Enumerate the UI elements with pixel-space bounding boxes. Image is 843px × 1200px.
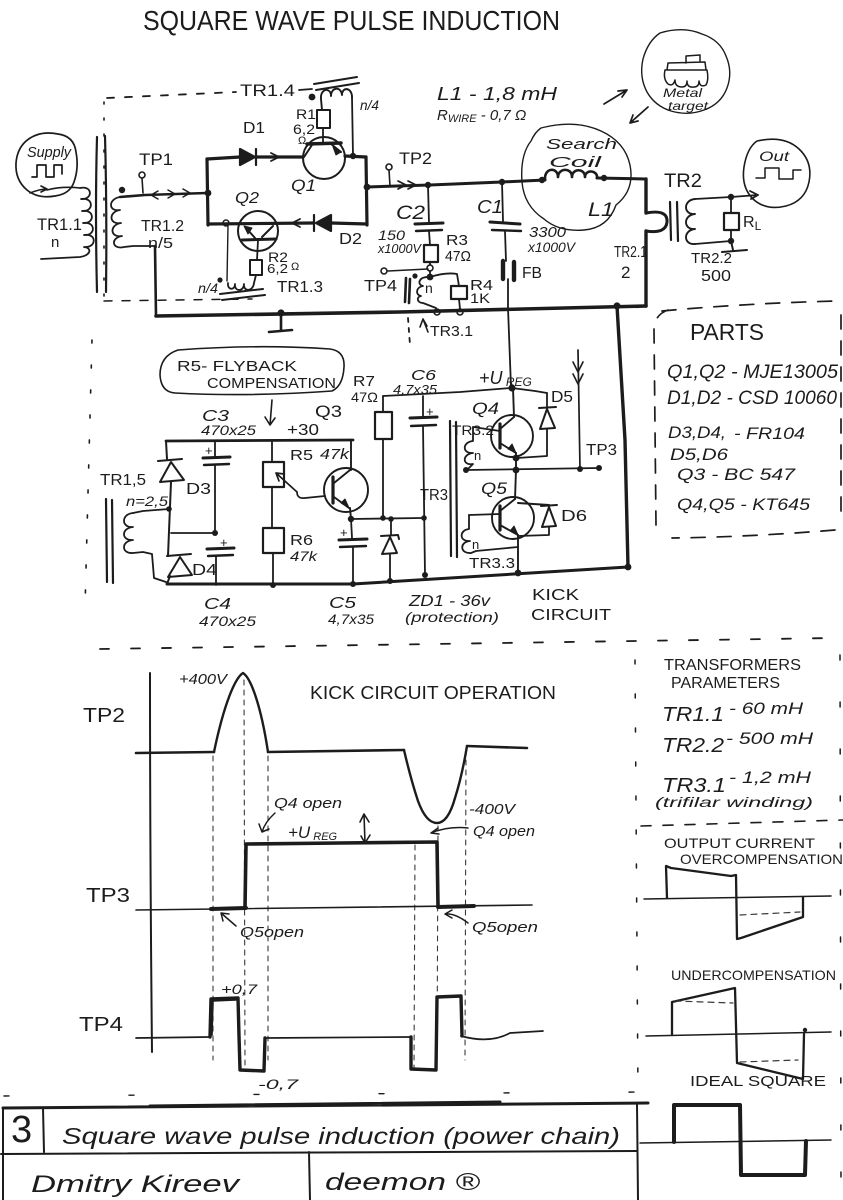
svg-text:Q3: Q3 bbox=[315, 402, 342, 421]
wire UREG to D5 bbox=[512, 388, 547, 393]
svg-text:L1: L1 bbox=[588, 200, 614, 221]
transformer TR2 core bbox=[670, 202, 678, 241]
bridge bottom wire bbox=[208, 223, 367, 224]
R5 flyback compensation bubble bbox=[160, 347, 344, 395]
metal object sketch bbox=[664, 55, 707, 87]
svg-text:R1: R1 bbox=[296, 106, 316, 122]
svg-text:47k: 47k bbox=[320, 446, 351, 463]
svg-text:Metal: Metal bbox=[663, 86, 702, 100]
overcompensation waveform bbox=[666, 866, 803, 939]
wire TR2.2 top to out bbox=[695, 191, 758, 199]
svg-text:D3: D3 bbox=[186, 481, 211, 498]
svg-text:TR1.1: TR1.1 bbox=[662, 704, 724, 726]
wire arrow before D2 bbox=[292, 219, 300, 227]
capacitor C3 bbox=[214, 441, 216, 457]
svg-text:- 500 mH: - 500 mH bbox=[726, 729, 814, 748]
svg-text:deemon ®: deemon ® bbox=[325, 1169, 480, 1196]
svg-text:TP3: TP3 bbox=[86, 885, 130, 907]
test point TP2 bbox=[386, 164, 392, 170]
node +UREG bbox=[508, 384, 515, 391]
node dots L1 bbox=[539, 177, 545, 183]
test point TP1 bbox=[139, 172, 145, 178]
svg-text:OVERCOMPENSATION: OVERCOMPENSATION bbox=[680, 851, 843, 867]
svg-text:n/5: n/5 bbox=[148, 235, 173, 252]
dashed border bottom of schematic bbox=[100, 638, 835, 649]
transformer TR1.5 core bbox=[106, 499, 113, 583]
svg-text:TP1: TP1 bbox=[139, 150, 173, 169]
node dot bridge left bbox=[205, 190, 212, 197]
TP4 baseline bbox=[136, 1031, 543, 1039]
transistor Q2 bbox=[238, 211, 278, 251]
dash marks below bus bbox=[408, 318, 410, 345]
svg-text:Q4 open: Q4 open bbox=[274, 795, 342, 812]
dashed separator bbox=[641, 820, 843, 826]
svg-text:1K: 1K bbox=[470, 290, 491, 306]
svg-text:500: 500 bbox=[701, 268, 731, 285]
TR1.3 core hatch bbox=[220, 289, 265, 300]
svg-text:n/4: n/4 bbox=[198, 280, 218, 296]
svg-text:target: target bbox=[668, 99, 709, 113]
svg-text:D5,D6: D5,D6 bbox=[670, 445, 729, 464]
inductor L1 search coil winding bbox=[545, 170, 597, 180]
node dot bridge right top bbox=[350, 153, 356, 159]
wire cap midpoint to left branch bbox=[171, 532, 215, 534]
main ground bus bbox=[156, 306, 646, 316]
capacitor C6 bbox=[422, 396, 424, 417]
svg-text:Ω: Ω bbox=[298, 135, 306, 147]
overcompensation dashed level bbox=[740, 912, 800, 915]
svg-text:KICK CIRCUIT OPERATION: KICK CIRCUIT OPERATION bbox=[310, 683, 556, 703]
out bubble bbox=[743, 139, 809, 207]
wire arrow after D1 bbox=[271, 153, 279, 161]
svg-text:4,7x35: 4,7x35 bbox=[328, 611, 374, 627]
double arrow bbox=[360, 814, 370, 843]
svg-text:FB: FB bbox=[522, 265, 542, 282]
svg-text:UNDERCOMPENSATION: UNDERCOMPENSATION bbox=[671, 967, 836, 983]
transformer TR1.2 winding bbox=[111, 197, 155, 247]
transformer TR1 core lines bbox=[96, 137, 97, 292]
open node circle on bottom wire bbox=[223, 220, 229, 226]
svg-text:TP4: TP4 bbox=[364, 278, 397, 295]
svg-text:R7: R7 bbox=[353, 373, 375, 390]
dashed border left of schematic upper bbox=[103, 102, 105, 298]
svg-text:TR2.1: TR2.1 bbox=[614, 244, 647, 261]
svg-text:D4: D4 bbox=[192, 562, 217, 579]
capacitor C1 bbox=[502, 182, 503, 221]
resistor R1 bbox=[317, 110, 330, 128]
wire FB to bus and below bbox=[508, 279, 511, 387]
title block top border bbox=[3, 1102, 648, 1108]
svg-text:TR1.4: TR1.4 bbox=[240, 81, 295, 100]
svg-text:R5- FLYBACK: R5- FLYBACK bbox=[177, 358, 297, 375]
svg-text:+: + bbox=[220, 535, 228, 550]
open node circles on bus bbox=[434, 309, 440, 315]
svg-text:- 1,2 mH: - 1,2 mH bbox=[729, 768, 812, 787]
svg-text:Q4 open: Q4 open bbox=[473, 823, 535, 840]
bridge left vertical wire bbox=[207, 159, 208, 225]
node circle under R3 bbox=[429, 262, 431, 265]
svg-text:+U REG: +U REG bbox=[479, 368, 532, 389]
zener diode ZD1 bbox=[390, 519, 392, 535]
svg-text:PARAMETERS: PARAMETERS bbox=[671, 675, 780, 692]
TP3 thick low segments bbox=[211, 906, 474, 909]
svg-text:+: + bbox=[205, 443, 213, 458]
svg-text:470x25: 470x25 bbox=[199, 613, 256, 629]
bridge right vertical wire bbox=[366, 157, 367, 225]
svg-text:TR2.2: TR2.2 bbox=[662, 735, 724, 757]
svg-text:ZD1 - 36v: ZD1 - 36v bbox=[408, 593, 491, 610]
undercompensation waveform bbox=[672, 988, 804, 1079]
out square wave glyph bbox=[756, 168, 801, 179]
svg-text:Ω: Ω bbox=[291, 261, 299, 273]
wiper wire to Q3 base bbox=[297, 492, 325, 498]
node dot TR1.4 bbox=[309, 94, 316, 101]
wire TR1.5 top to node bbox=[133, 509, 169, 513]
svg-text:TR3.1: TR3.1 bbox=[430, 323, 473, 340]
svg-text:TR2: TR2 bbox=[664, 171, 702, 192]
diode D3 bbox=[158, 459, 184, 482]
node dot TP2 branch bbox=[364, 184, 371, 191]
potentiometer R5 bbox=[271, 441, 273, 462]
TR3.3 base lead bbox=[469, 514, 500, 515]
undercompensation dashed levels bbox=[675, 1001, 733, 1003]
svg-text:TR1.3: TR1.3 bbox=[277, 279, 323, 296]
svg-text:+30: +30 bbox=[287, 422, 319, 439]
winding TR3.2 bbox=[465, 427, 473, 470]
bridge top wire bbox=[207, 156, 366, 159]
left branch vertical bbox=[166, 441, 171, 584]
TR1.4 core hatch bbox=[314, 77, 359, 90]
resistor R6 bbox=[271, 487, 273, 528]
svg-text:Dmitry Kireev: Dmitry Kireev bbox=[31, 1171, 242, 1198]
transistor Q4 bbox=[491, 415, 533, 457]
svg-text:RWIRE - 0,7 Ω: RWIRE - 0,7 Ω bbox=[437, 107, 526, 125]
ground symbol bbox=[277, 309, 284, 316]
resistor R7 bbox=[382, 396, 384, 412]
ground stub under RL bbox=[722, 241, 747, 252]
svg-text:- 60 mH: - 60 mH bbox=[729, 699, 804, 718]
lower top rail +30 bbox=[166, 440, 353, 441]
svg-text:n: n bbox=[51, 234, 59, 251]
svg-text:OUTPUT CURRENT: OUTPUT CURRENT bbox=[664, 835, 816, 851]
wire TR1.2 to bridge bbox=[120, 193, 207, 197]
svg-text:Square wave pulse induction (p: Square wave pulse induction (power chain… bbox=[62, 1123, 620, 1149]
svg-text:CIRCUIT: CIRCUIT bbox=[531, 607, 611, 624]
svg-text:47Ω: 47Ω bbox=[445, 248, 471, 265]
TP4 pulse group 2 bbox=[411, 996, 462, 1070]
TP2 positive pulse bbox=[214, 673, 268, 752]
Q5 emitter wire bbox=[517, 535, 519, 573]
transformer TR3 core bbox=[450, 421, 457, 557]
svg-text:470x25: 470x25 bbox=[201, 422, 256, 438]
diode D2 bbox=[314, 215, 331, 231]
wire TR2.2 bottom bbox=[695, 241, 731, 244]
resistor R3 bbox=[424, 245, 438, 262]
svg-text:Search: Search bbox=[546, 136, 617, 153]
Q4 emitter node bbox=[513, 455, 520, 462]
svg-text:Q5: Q5 bbox=[481, 479, 508, 498]
svg-text:47k: 47k bbox=[290, 548, 318, 564]
svg-text:47Ω: 47Ω bbox=[351, 389, 378, 405]
transformer TR3.1 core bbox=[405, 278, 410, 303]
undercompensation axis bbox=[646, 1032, 831, 1036]
svg-text:RL: RL bbox=[743, 214, 762, 233]
transistor Q1 bbox=[303, 137, 345, 179]
transistor Q3 bbox=[324, 468, 368, 512]
wire supply to TR1.1 bbox=[47, 187, 80, 190]
resistor RL bbox=[730, 197, 732, 241]
metal target cloud bbox=[642, 30, 730, 114]
diode D6 bbox=[518, 503, 557, 527]
TP3 pulse bbox=[245, 842, 438, 908]
kick right vertical wire bbox=[617, 306, 628, 567]
svg-text:KICK: KICK bbox=[532, 587, 579, 604]
dashed border left lower bbox=[85, 340, 92, 608]
svg-text:n: n bbox=[474, 448, 481, 463]
svg-text:TR3.3: TR3.3 bbox=[469, 555, 515, 572]
svg-text:R3: R3 bbox=[446, 232, 468, 249]
PARTS dashed box bbox=[654, 301, 841, 538]
svg-text:COMPENSATION: COMPENSATION bbox=[207, 375, 336, 392]
resistor R2 bbox=[257, 240, 258, 260]
svg-text:D5: D5 bbox=[551, 389, 573, 406]
wire TR1.2 bottom to bus bbox=[155, 246, 156, 316]
svg-text:-0,7: -0,7 bbox=[258, 1076, 300, 1092]
diode D5 bbox=[546, 393, 548, 408]
svg-text:TP4: TP4 bbox=[79, 1014, 123, 1036]
winding TR1.3 bbox=[228, 275, 256, 290]
resistor R4 bbox=[430, 273, 459, 286]
winding TR2.1 loop bbox=[646, 212, 667, 232]
svg-text:D6: D6 bbox=[561, 508, 587, 525]
capacitor C5 bbox=[351, 519, 352, 538]
svg-text:L1 - 1,8 mH: L1 - 1,8 mH bbox=[437, 84, 558, 104]
label TR3.1 with arrow bbox=[420, 319, 428, 332]
svg-text:-400V: -400V bbox=[469, 801, 517, 818]
diode D4 bbox=[167, 554, 192, 577]
svg-text:D3,D4,: D3,D4, bbox=[668, 423, 726, 442]
winding TR3.1 bbox=[417, 277, 436, 308]
Q3 collector wire bbox=[350, 441, 352, 470]
svg-text:n: n bbox=[425, 280, 433, 296]
svg-text:TR1,5: TR1,5 bbox=[100, 472, 146, 489]
svg-text:TR1.1: TR1.1 bbox=[37, 215, 82, 234]
svg-text:(trifilar winding): (trifilar winding) bbox=[655, 794, 813, 810]
svg-text:Q5open: Q5open bbox=[240, 924, 304, 941]
node dot left of TP1 wire bbox=[119, 187, 125, 193]
top wire bridge to L1 bbox=[367, 178, 646, 187]
capacitor C2 bbox=[428, 185, 429, 223]
winding TR2.2 bbox=[686, 199, 695, 244]
TP4 pulse group 1 bbox=[210, 998, 265, 1071]
svg-text:+400V: +400V bbox=[179, 671, 229, 688]
svg-text:TP2: TP2 bbox=[83, 705, 125, 727]
svg-text:n=2,5: n=2,5 bbox=[126, 493, 168, 509]
UREG feed wire bbox=[383, 388, 511, 396]
svg-text:TP2: TP2 bbox=[399, 149, 432, 168]
svg-text:n: n bbox=[472, 537, 479, 552]
overcompensation axis bbox=[644, 896, 831, 899]
dashed vertical separator right column bbox=[635, 660, 638, 1095]
UREG row wire bbox=[351, 518, 423, 519]
svg-text:+: + bbox=[426, 404, 434, 419]
svg-text:TR2.2: TR2.2 bbox=[691, 250, 732, 267]
transistor Q5 bbox=[492, 497, 534, 539]
svg-text:Q2: Q2 bbox=[235, 190, 259, 207]
capacitor C4 bbox=[207, 548, 234, 549]
svg-text:R5: R5 bbox=[290, 447, 313, 464]
svg-text:TP3: TP3 bbox=[586, 442, 617, 459]
svg-text:Coil: Coil bbox=[549, 154, 602, 171]
TP2 negative pulse bbox=[404, 746, 467, 823]
TP3 baseline bbox=[136, 905, 532, 910]
search coil bubble bbox=[522, 124, 631, 230]
svg-text:+0,7: +0,7 bbox=[221, 981, 259, 997]
svg-text:C1: C1 bbox=[477, 197, 503, 217]
svg-text:C4: C4 bbox=[204, 596, 231, 613]
ideal square axis bbox=[640, 1140, 831, 1143]
TP3 vertical with arrows bbox=[578, 350, 580, 469]
arrow to metal target bbox=[604, 90, 627, 104]
main right vertical wire bbox=[644, 179, 647, 306]
wire to TP4 bbox=[388, 269, 428, 271]
svg-text:D1,D2 - CSD 10060: D1,D2 - CSD 10060 bbox=[667, 388, 837, 409]
TR1.3 left lead wire bbox=[227, 226, 228, 281]
TR1.4 right lead bbox=[352, 97, 353, 156]
lower bottom bus bbox=[167, 567, 628, 584]
svg-text:6,2: 6,2 bbox=[267, 261, 288, 276]
TP2 waveform baseline bbox=[136, 746, 527, 753]
svg-text:Out: Out bbox=[759, 148, 790, 164]
svg-text:x1000V: x1000V bbox=[527, 239, 577, 255]
ideal square waveform bbox=[674, 1105, 806, 1175]
svg-text:Supply: Supply bbox=[27, 144, 72, 161]
svg-text:C2: C2 bbox=[396, 203, 426, 224]
arrow below bubble bbox=[265, 400, 275, 425]
svg-text:Q3 - BC 547: Q3 - BC 547 bbox=[677, 465, 796, 484]
wire arrows TP2 bbox=[398, 181, 416, 189]
node blob under TP4 node bbox=[427, 274, 434, 281]
svg-text:SQUARE WAVE PULSE INDUCTION: SQUARE WAVE PULSE INDUCTION bbox=[143, 5, 560, 36]
arrow from supply bbox=[30, 186, 47, 193]
svg-text:TRANSFORMERS: TRANSFORMERS bbox=[664, 657, 801, 674]
svg-text:Q1,Q2 - MJE13005: Q1,Q2 - MJE13005 bbox=[667, 362, 838, 383]
Q3 emitter wire bbox=[350, 508, 351, 519]
dashed border top of schematic bbox=[107, 92, 236, 98]
wire arrows on TP1 wire bbox=[151, 191, 158, 199]
title block outline bbox=[1, 1104, 638, 1200]
svg-text:D1: D1 bbox=[243, 120, 265, 137]
ferrite bead FB bbox=[503, 261, 514, 280]
winding TR1.5 bbox=[124, 513, 166, 582]
svg-text:TR1.2: TR1.2 bbox=[141, 218, 184, 235]
supply square-wave glyph bbox=[32, 165, 62, 177]
mid row wire TP3 bbox=[466, 468, 599, 470]
svg-text:Q4,Q5 - KT645: Q4,Q5 - KT645 bbox=[677, 495, 811, 514]
transformer TR1.1 primary winding bbox=[41, 188, 94, 259]
svg-text:C5: C5 bbox=[329, 595, 356, 612]
dashed page right edge bbox=[840, 655, 841, 1190]
svg-text:x1000V: x1000V bbox=[377, 241, 422, 256]
svg-text:(protection): (protection) bbox=[405, 609, 499, 625]
svg-text:IDEAL SQUARE: IDEAL SQUARE bbox=[690, 1073, 826, 1090]
svg-text:+U REG: +U REG bbox=[288, 823, 338, 843]
svg-text:Q5open: Q5open bbox=[472, 919, 538, 936]
svg-text:+: + bbox=[340, 525, 348, 540]
Q5 collector wire bbox=[515, 470, 516, 499]
svg-text:n/4: n/4 bbox=[360, 97, 379, 113]
waveform axis vertical bbox=[150, 673, 152, 1052]
svg-text:R6: R6 bbox=[290, 532, 313, 549]
winding TR3.3 bbox=[462, 515, 518, 553]
svg-text:TR3: TR3 bbox=[420, 487, 448, 504]
supply bubble bbox=[16, 133, 77, 197]
svg-text:2: 2 bbox=[621, 263, 630, 282]
svg-text:PARTS: PARTS bbox=[690, 319, 764, 345]
dashed timing lines bbox=[212, 756, 214, 1060]
TR3.2 base lead bbox=[473, 427, 500, 431]
svg-text:- FR104: - FR104 bbox=[734, 424, 805, 443]
dashed marks above title block bbox=[4, 1092, 650, 1096]
svg-text:3: 3 bbox=[11, 1109, 32, 1151]
diode D1 bbox=[240, 149, 256, 165]
svg-text:D2: D2 bbox=[339, 231, 362, 248]
svg-text:Q4: Q4 bbox=[472, 399, 499, 418]
dashed border mid horizontal bbox=[104, 299, 252, 301]
arrow from metal target bbox=[630, 107, 648, 123]
svg-text:Q1: Q1 bbox=[291, 176, 316, 195]
winding TR1.4 bbox=[321, 89, 352, 110]
Q4 collector wire bbox=[513, 388, 514, 417]
